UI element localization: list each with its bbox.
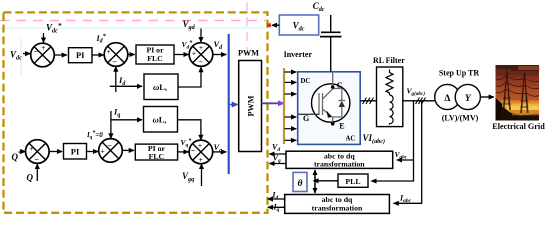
svg-text:Vgq: Vgq: [182, 171, 194, 183]
svg-text:+: +: [101, 148, 105, 156]
svg-text:−: −: [107, 141, 112, 150]
svg-text:(LV)/(MV): (LV)/(MV): [442, 114, 479, 123]
svg-text:Inverter: Inverter: [284, 50, 313, 59]
svg-text:Iabc: Iabc: [399, 194, 412, 205]
svg-text:Cdc: Cdc: [313, 1, 325, 13]
svg-text:Id: Id: [118, 75, 126, 87]
svg-text:θ: θ: [298, 179, 303, 189]
svg-text:PWM: PWM: [246, 95, 255, 116]
svg-text:+: +: [192, 49, 196, 57]
svg-text:RL Filter: RL Filter: [373, 56, 405, 65]
svg-text:Q: Q: [27, 173, 34, 183]
svg-text:Id: Id: [271, 190, 278, 201]
svg-text:−: −: [198, 57, 203, 66]
svg-text:+: +: [199, 44, 203, 52]
svg-text:−: −: [34, 47, 39, 56]
svg-text:Δ: Δ: [444, 94, 450, 104]
svg-text:Vg(abc): Vg(abc): [407, 87, 426, 98]
svg-text:ωLs: ωLs: [153, 115, 167, 126]
svg-text:ωLs: ωLs: [153, 82, 167, 93]
svg-text:FLC: FLC: [149, 152, 165, 161]
svg-text:Vd: Vd: [214, 39, 224, 51]
svg-text:FLC: FLC: [147, 54, 163, 63]
svg-text:Iq: Iq: [273, 203, 280, 214]
svg-text:C: C: [337, 81, 343, 90]
svg-text:VI(abc): VI(abc): [363, 133, 386, 145]
svg-text:+: +: [107, 48, 111, 56]
svg-text:transformation: transformation: [314, 159, 365, 168]
svg-text:−: −: [34, 155, 39, 164]
svg-text:PI: PI: [76, 50, 85, 60]
svg-text:Electrical Grid: Electrical Grid: [492, 122, 545, 131]
svg-text:PWM: PWM: [238, 49, 259, 58]
svg-text:Vabc: Vabc: [395, 150, 408, 161]
svg-text:+: +: [198, 142, 202, 150]
svg-text:DC: DC: [301, 78, 311, 85]
svg-text:PI: PI: [71, 147, 80, 157]
svg-text:Vq: Vq: [273, 153, 281, 164]
svg-text:AC: AC: [346, 136, 356, 143]
svg-text:E: E: [339, 122, 344, 131]
svg-text:G: G: [303, 114, 309, 123]
svg-text:Step Up TR: Step Up TR: [439, 69, 480, 78]
svg-text:Q*: Q*: [12, 149, 23, 162]
svg-text:Iq*=0: Iq*=0: [86, 130, 103, 141]
svg-text:+: +: [30, 145, 34, 153]
svg-text:Vd: Vd: [272, 143, 280, 154]
svg-text:−: −: [191, 146, 196, 155]
svg-text:transformation: transformation: [312, 203, 363, 212]
svg-text:Iq: Iq: [113, 107, 120, 119]
svg-text:+: +: [199, 156, 203, 164]
svg-text:Id*: Id*: [96, 33, 107, 44]
svg-text:+: +: [41, 44, 45, 52]
svg-text:Vdc*: Vdc*: [46, 22, 62, 35]
svg-text:PLL: PLL: [345, 177, 360, 186]
svg-text:−: −: [112, 57, 117, 66]
